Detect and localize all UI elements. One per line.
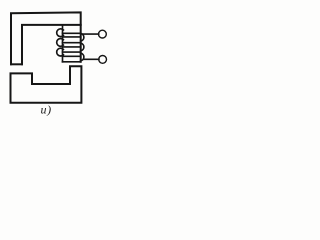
- coil L1 rung turn1b: [63, 36, 81, 38]
- coil L1 right cap turn3: [81, 53, 84, 61]
- svg-text:и): и): [41, 103, 52, 117]
- terminal 2 circle: [99, 56, 107, 64]
- coil L1 rung turn2a: [63, 42, 81, 44]
- coil L1 left hook turn3: [57, 48, 64, 56]
- core lower piece outline: [11, 66, 82, 103]
- wire lower lead: [83, 58, 99, 60]
- coil L1 rung turn2b: [63, 46, 81, 48]
- coil L1 bottom rung: [63, 61, 81, 63]
- coil L1 left vertical: [62, 25, 64, 62]
- coil L1 left hook turn1: [57, 29, 64, 37]
- coil L1 rung turn3a: [63, 51, 81, 53]
- core upper piece outer outline: [11, 12, 81, 64]
- core upper piece inner outline: [22, 25, 81, 64]
- core upper left limb bottom: [11, 63, 22, 65]
- wire upper lead: [83, 33, 99, 35]
- coil L1 right cap turn1: [81, 34, 84, 42]
- coil L1 rung turn1a: [63, 32, 81, 34]
- coil L1 right cap turn2: [81, 43, 84, 51]
- coil L1 rung turn3b: [63, 55, 81, 57]
- terminal 1 circle: [99, 30, 107, 38]
- coil L1 left hook turn2: [57, 38, 64, 46]
